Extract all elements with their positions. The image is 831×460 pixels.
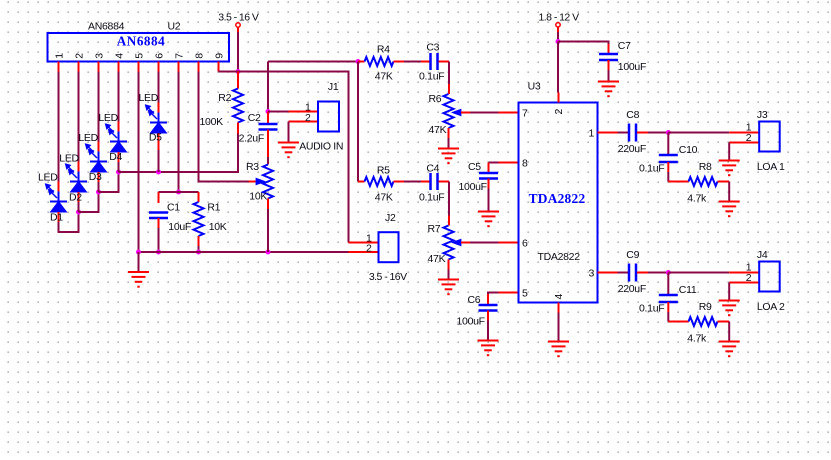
wire D4 lower to junction: [118, 162, 120, 172]
svg-text:1.8 - 12 V: 1.8 - 12 V: [539, 12, 580, 24]
wire R7 to ground: [448, 270, 450, 280]
LED D3 emission arrows: [86, 144, 97, 158]
wire C7 to ground: [608, 70, 610, 82]
wire junction to J3 pin1: [668, 132, 729, 134]
capacitor C5 top lead: [488, 163, 490, 174]
wire R9 to ground: [728, 322, 730, 342]
ground symbol C7: [598, 81, 619, 83]
D1 upper pin red: [58, 182, 60, 192]
svg-text:47K: 47K: [428, 253, 446, 265]
svg-text:TDA2822: TDA2822: [529, 191, 586, 206]
U2 pin 5 stub: [138, 62, 140, 72]
wire U2 pin to D1 anode: [58, 72, 60, 182]
svg-text:LED: LED: [78, 132, 98, 144]
wire C5 to ground: [488, 189, 490, 212]
wire junction to J4 pin1: [668, 272, 729, 274]
R3 wiper arrow: [256, 179, 264, 184]
wire pin1 to C8: [618, 132, 629, 134]
svg-text:2: 2: [366, 243, 372, 255]
capacitor C5 plates: [479, 172, 498, 175]
wire U2 pin to D5 anode: [158, 72, 160, 103]
capacitor C11 bottom lead: [667, 302, 669, 312]
D3 upper lead blue: [98, 152, 100, 162]
wire J1 pin2 to ground: [288, 122, 290, 143]
wire U2 pin to D4 anode: [118, 72, 120, 122]
wire U3 pin4 to ground: [558, 313, 560, 342]
svg-text:J4: J4: [757, 249, 768, 261]
junction C2 J1 pin1: [266, 109, 271, 114]
capacitor C5 bottom lead: [488, 179, 490, 189]
svg-text:R4: R4: [377, 44, 390, 56]
svg-text:LED: LED: [38, 172, 58, 184]
LED D1 triangle: [51, 202, 67, 213]
junction pin7 C1 R1: [176, 190, 181, 195]
svg-text:R7: R7: [428, 223, 441, 235]
connector J1 pin2 red: [289, 121, 319, 123]
U3 pin3 stub: [598, 272, 618, 274]
capacitor C2 plates: [259, 123, 278, 126]
wire D2 step to D3 line: [79, 192, 99, 212]
junction power U3 pin2: [556, 39, 561, 44]
U2 pin 9 stub: [218, 62, 220, 72]
svg-text:C1: C1: [167, 202, 180, 214]
D2 upper pin red: [78, 162, 80, 172]
capacitor C10 plates: [659, 154, 678, 157]
capacitor C8 right lead: [637, 132, 648, 134]
wire U2 pin8 to R3 wiper: [199, 72, 249, 182]
wire power port to junction: [237, 28, 239, 32]
svg-text:100uF: 100uF: [459, 181, 487, 193]
wire U2 pin5 to ground rail: [138, 72, 140, 253]
connector J1 pin1 red: [289, 111, 319, 113]
U2 pin 4 stub: [118, 62, 120, 72]
svg-text:C11: C11: [679, 284, 697, 296]
svg-text:R6: R6: [429, 93, 442, 105]
junction C9 C11 J4: [666, 270, 671, 275]
R6 wiper arrow: [454, 110, 462, 115]
LED D4 triangle: [111, 142, 127, 153]
D5 upper lead blue: [158, 113, 160, 123]
svg-text:R1: R1: [207, 202, 220, 214]
potentiometer R3 body: [263, 165, 273, 199]
wire C1 bottom to rail: [158, 228, 160, 252]
junction C1 rail: [156, 250, 161, 255]
R3 wiper red lead: [249, 181, 257, 183]
junction D4 cathode: [116, 170, 121, 175]
svg-text:5: 5: [522, 288, 528, 300]
svg-text:R2: R2: [218, 92, 231, 104]
resistor R2 bottom lead: [237, 123, 239, 134]
svg-text:3.5 - 16 V: 3.5 - 16 V: [218, 12, 259, 24]
svg-text:C2: C2: [248, 112, 261, 124]
D4 upper lead blue: [118, 132, 120, 142]
svg-text:J2: J2: [385, 212, 396, 224]
LED D5 emission arrows: [146, 105, 157, 119]
resistor R8 left lead: [668, 181, 688, 183]
svg-text:7: 7: [174, 53, 186, 59]
U2 pin 7 stub: [178, 62, 180, 72]
wire junction to J1 pin1: [268, 111, 289, 113]
ground symbol C6: [478, 340, 499, 342]
svg-text:C3: C3: [426, 42, 439, 54]
capacitor C3 plates: [429, 53, 432, 70]
wire R1 bottom to rail: [198, 246, 200, 252]
svg-text:C9: C9: [626, 249, 639, 261]
wire C11 to R9: [667, 312, 669, 322]
U3 pin2 stub: [558, 93, 560, 103]
resistor R1 body: [194, 202, 204, 236]
U2 pin 3 stub: [98, 62, 100, 72]
svg-text:2: 2: [746, 272, 752, 284]
resistor R5 right lead: [394, 181, 405, 183]
svg-text:R3: R3: [246, 161, 259, 173]
resistor R2 top lead: [237, 72, 239, 89]
resistor R3 bottom lead: [267, 199, 269, 210]
U3 pin7 stub: [499, 112, 519, 114]
wire R4 node down to R5: [357, 62, 359, 182]
LED D3 triangle: [91, 162, 107, 173]
svg-text:R9: R9: [699, 301, 712, 313]
connector J3 pin1 red: [729, 132, 759, 134]
resistor R5 left lead: [358, 181, 365, 183]
junction R4 node: [356, 59, 361, 64]
svg-text:1: 1: [588, 128, 594, 140]
connector J1 box: [318, 102, 339, 132]
junction C8 C10 J3: [666, 130, 671, 135]
junction rail pin5: [136, 250, 141, 255]
wire J2 pin1 red: [349, 242, 379, 244]
LED D5 cathode bar: [150, 122, 167, 124]
wire C6 to ground: [487, 321, 489, 341]
svg-text:7: 7: [522, 108, 528, 120]
svg-text:2: 2: [74, 53, 86, 59]
IC U3 TDA2822 box: [519, 103, 598, 303]
D3 upper pin red: [98, 142, 100, 152]
svg-text:2: 2: [553, 109, 565, 115]
LED D1 cathode bar: [50, 201, 67, 203]
D5 lower lead red: [158, 133, 160, 150]
svg-text:6: 6: [522, 238, 528, 250]
capacitor C11 plates: [659, 294, 678, 297]
junction D5 cathode: [156, 170, 161, 175]
D4 lower lead red: [118, 152, 120, 162]
svg-text:LOA 2: LOA 2: [757, 301, 785, 313]
resistor R6 top lead: [448, 84, 450, 94]
capacitor C9 plates: [628, 264, 631, 282]
ground symbol R8: [719, 201, 740, 203]
power port circle 3.5-16V: [236, 23, 240, 27]
junction D3 cathode: [96, 190, 101, 195]
capacitor C4 left lead: [421, 181, 430, 183]
wire C10 to R8: [667, 172, 669, 182]
wire R4 to C3: [404, 61, 421, 63]
junction D2 cathode: [76, 210, 81, 215]
connector J4 pin1 red: [729, 272, 759, 274]
svg-text:U3: U3: [528, 80, 541, 92]
wire C2 node to R4 row: [268, 61, 358, 63]
capacitor C4 plates: [429, 173, 432, 190]
resistor R9 right lead: [718, 321, 730, 323]
svg-text:4.7k: 4.7k: [687, 333, 707, 345]
svg-text:8: 8: [522, 158, 528, 170]
wire junction to C11: [667, 273, 669, 295]
wire R3 bottom to rail: [267, 209, 269, 252]
svg-text:0.1uF: 0.1uF: [419, 192, 444, 204]
D2 upper lead blue: [78, 172, 80, 182]
svg-text:47K: 47K: [375, 192, 393, 204]
svg-text:3.5 - 16V: 3.5 - 16V: [369, 271, 407, 283]
svg-text:8: 8: [194, 53, 206, 59]
svg-text:C8: C8: [626, 109, 639, 121]
U2 pin 1 stub: [58, 62, 60, 72]
wire U2 pin to D3 anode: [98, 72, 100, 142]
wire U2 pin7 to C1 R1 node: [178, 72, 180, 193]
resistor R6 bottom lead: [448, 128, 450, 138]
resistor R8 right lead: [718, 181, 730, 183]
svg-text:R8: R8: [699, 161, 712, 173]
svg-text:2: 2: [746, 132, 752, 144]
svg-text:9: 9: [214, 53, 226, 59]
capacitor C4 right lead: [439, 181, 450, 183]
svg-text:5: 5: [134, 53, 146, 59]
wire C3 to R6: [448, 62, 450, 85]
junction R1 rail: [196, 250, 201, 255]
wire U2 pin to D2 anode: [78, 72, 80, 162]
svg-text:C10: C10: [679, 144, 698, 156]
capacitor C1 bottom lead: [158, 218, 160, 228]
svg-text:AUDIO IN: AUDIO IN: [299, 141, 343, 153]
U3 pin4 stub: [558, 303, 560, 313]
D4 upper pin red: [118, 122, 120, 132]
ground symbol C5: [478, 211, 499, 213]
capacitor C7 plates: [599, 53, 618, 56]
wire R6 to ground: [448, 138, 450, 149]
potentiometer R6 body: [444, 94, 454, 128]
svg-text:C4: C4: [426, 163, 439, 175]
wire rail to J2 pin2 red: [349, 251, 379, 253]
wire D1 cathode step to D2 line: [59, 212, 79, 232]
U3 pin1 stub: [598, 132, 618, 134]
svg-text:LOA 1: LOA 1: [757, 161, 785, 173]
wire D3 step to D4 line: [99, 172, 119, 192]
svg-text:D3: D3: [89, 171, 102, 183]
svg-text:1: 1: [54, 53, 66, 59]
svg-text:J3: J3: [757, 109, 768, 121]
wire D3 lower to junction: [98, 182, 100, 192]
resistor R4 body: [365, 57, 394, 66]
svg-text:R5: R5: [377, 165, 390, 177]
U3 pin8 stub: [499, 162, 519, 164]
LED D5 triangle: [151, 123, 167, 134]
wire pin8 to C5: [489, 162, 499, 164]
wire R7 wiper to U3 pin6: [470, 242, 499, 244]
ground symbol R7: [438, 279, 459, 281]
wire J4 pin2 to ground: [728, 283, 730, 301]
capacitor C3 left lead: [421, 61, 430, 63]
capacitor C3 right lead: [439, 61, 450, 63]
IC U2 AN6884 box: [48, 33, 230, 62]
connector J3 pin2 red: [729, 142, 759, 144]
wire C1 R1 top: [159, 191, 199, 193]
svg-text:10K: 10K: [249, 191, 267, 203]
svg-text:AN6884: AN6884: [88, 21, 125, 33]
svg-text:LED: LED: [59, 153, 79, 165]
svg-text:220uF: 220uF: [618, 143, 646, 155]
LED D4 emission arrows: [106, 124, 117, 138]
svg-text:2: 2: [305, 112, 311, 124]
capacitor C2 top lead: [267, 112, 269, 124]
LED D2 triangle: [71, 182, 87, 193]
R7 wiper arrow: [454, 240, 462, 245]
svg-text:LED: LED: [98, 112, 118, 124]
svg-text:AN6884: AN6884: [117, 34, 165, 49]
wire power junction to U3 pin2: [557, 42, 559, 93]
U2 pin 8 stub: [198, 62, 200, 72]
svg-text:4: 4: [114, 53, 126, 59]
U2 pin 6 stub: [158, 62, 160, 72]
svg-text:0.1uF: 0.1uF: [639, 303, 664, 315]
R7 wiper red lead: [461, 242, 470, 244]
potentiometer R7 body: [444, 226, 454, 260]
junction pin9/power/R2: [236, 69, 241, 74]
capacitor C7 top lead: [608, 44, 610, 54]
svg-text:47K: 47K: [429, 124, 447, 136]
LED D3 cathode bar: [90, 161, 107, 163]
resistor R7 top lead: [448, 216, 450, 226]
svg-text:4.7k: 4.7k: [687, 193, 707, 205]
svg-text:100K: 100K: [200, 116, 224, 128]
svg-text:2.2uF: 2.2uF: [239, 133, 264, 145]
capacitor C6 top lead: [487, 294, 489, 305]
svg-text:100uF: 100uF: [457, 316, 485, 328]
connector J2 box: [379, 232, 399, 262]
resistor R4 left lead: [358, 61, 365, 63]
wire top feed to C2 J1 node: [267, 62, 269, 112]
wire D2 lower to junction: [78, 202, 80, 212]
svg-text:10K: 10K: [209, 221, 227, 233]
wire power junction to C7: [558, 42, 609, 45]
R6 wiper red lead: [461, 112, 470, 114]
ground stem main: [138, 252, 140, 272]
wire R6 wiper to U3 pin7: [470, 112, 499, 114]
capacitor C1 top lead: [158, 192, 160, 203]
power port circle 1.8-12V: [556, 23, 560, 27]
svg-text:0.1uF: 0.1uF: [419, 71, 444, 83]
connector J4 pin2 red: [729, 282, 759, 284]
U3 pin5 stub: [499, 292, 519, 294]
capacitor C6 plates: [479, 304, 498, 307]
wire C2 to R3: [267, 157, 269, 165]
svg-text:LED: LED: [139, 92, 159, 104]
D1 upper lead blue: [58, 192, 60, 202]
svg-text:TDA2822: TDA2822: [538, 251, 581, 263]
wire D5 lower to cascade rail: [158, 150, 160, 172]
wire C9 to junction: [648, 272, 668, 274]
resistor R5 body: [365, 177, 394, 186]
capacitor C1 plates: [149, 211, 168, 214]
svg-text:D4: D4: [109, 151, 122, 163]
LED D1 emission arrows: [46, 184, 57, 198]
svg-text:3: 3: [588, 268, 594, 280]
D1 lower lead red: [58, 212, 60, 222]
resistor R9 body: [689, 317, 718, 326]
svg-text:D1: D1: [50, 212, 63, 224]
wire junction to C10: [667, 133, 669, 155]
capacitor C7 bottom lead: [608, 60, 610, 70]
resistor R8 body: [689, 177, 718, 186]
ground symbol R9: [719, 341, 740, 343]
resistor R7 bottom lead: [448, 260, 450, 270]
ground symbol J1: [278, 142, 299, 144]
svg-text:10uF: 10uF: [168, 221, 191, 233]
D2 lower lead red: [78, 192, 80, 202]
svg-text:6: 6: [154, 53, 166, 59]
resistor R2 body: [233, 89, 243, 123]
ground symbol J4 pin2: [719, 300, 740, 302]
LED D2 cathode bar: [70, 181, 87, 183]
LED D4 cathode bar: [110, 141, 127, 143]
svg-text:4: 4: [553, 294, 565, 300]
wire pin5 to C6: [488, 293, 499, 295]
svg-text:0.1uF: 0.1uF: [639, 163, 664, 175]
wire R5 to C4: [404, 181, 421, 183]
D5 upper pin red: [158, 103, 160, 113]
connector J4 box: [759, 262, 780, 292]
capacitor C2 bottom lead: [267, 130, 269, 158]
ground symbol R6: [438, 148, 459, 150]
wire pin3 to C9: [618, 272, 629, 274]
connector J3 box: [759, 122, 780, 152]
svg-text:100uF: 100uF: [618, 61, 646, 73]
ground symbol J3 pin2: [719, 160, 740, 162]
wire V+ rail to J2 feed: [238, 72, 349, 243]
svg-text:C5: C5: [468, 161, 481, 173]
wire J3 pin2 to ground: [728, 143, 730, 161]
U2 pin 2 stub: [78, 62, 80, 72]
U3 pin6 stub: [499, 242, 519, 244]
wire R8 to ground: [728, 182, 730, 202]
capacitor C8 plates: [628, 124, 631, 142]
resistor R1 bottom lead: [198, 236, 200, 246]
ground rail wire: [139, 251, 349, 253]
svg-text:C7: C7: [618, 40, 631, 52]
capacitor C10 bottom lead: [667, 162, 669, 172]
svg-text:C6: C6: [468, 294, 481, 306]
junction R3 rail: [266, 250, 271, 255]
D3 lower lead red: [98, 172, 100, 182]
svg-text:47K: 47K: [375, 71, 393, 83]
wire LED cascade rail to R2 bottom: [119, 134, 239, 173]
resistor R9 left lead: [668, 321, 688, 323]
resistor R4 right lead: [394, 61, 405, 63]
wire C4 to R7: [448, 182, 450, 216]
wire U2 pin9 to junction: [219, 71, 239, 73]
ground symbol main: [128, 271, 149, 273]
capacitor C6 bottom lead: [487, 311, 489, 321]
wire C8 to junction: [648, 132, 668, 134]
svg-text:3: 3: [94, 53, 106, 59]
wire power port down: [557, 27, 559, 32]
capacitor C9 right lead: [637, 272, 648, 274]
svg-text:D5: D5: [149, 132, 162, 144]
LED D2 emission arrows: [66, 164, 77, 178]
svg-text:U2: U2: [168, 21, 181, 33]
resistor R1 top lead: [198, 192, 200, 202]
svg-text:D2: D2: [69, 192, 82, 204]
svg-text:220uF: 220uF: [618, 283, 646, 295]
svg-text:J1: J1: [328, 81, 339, 93]
ground symbol pin4: [548, 341, 569, 343]
